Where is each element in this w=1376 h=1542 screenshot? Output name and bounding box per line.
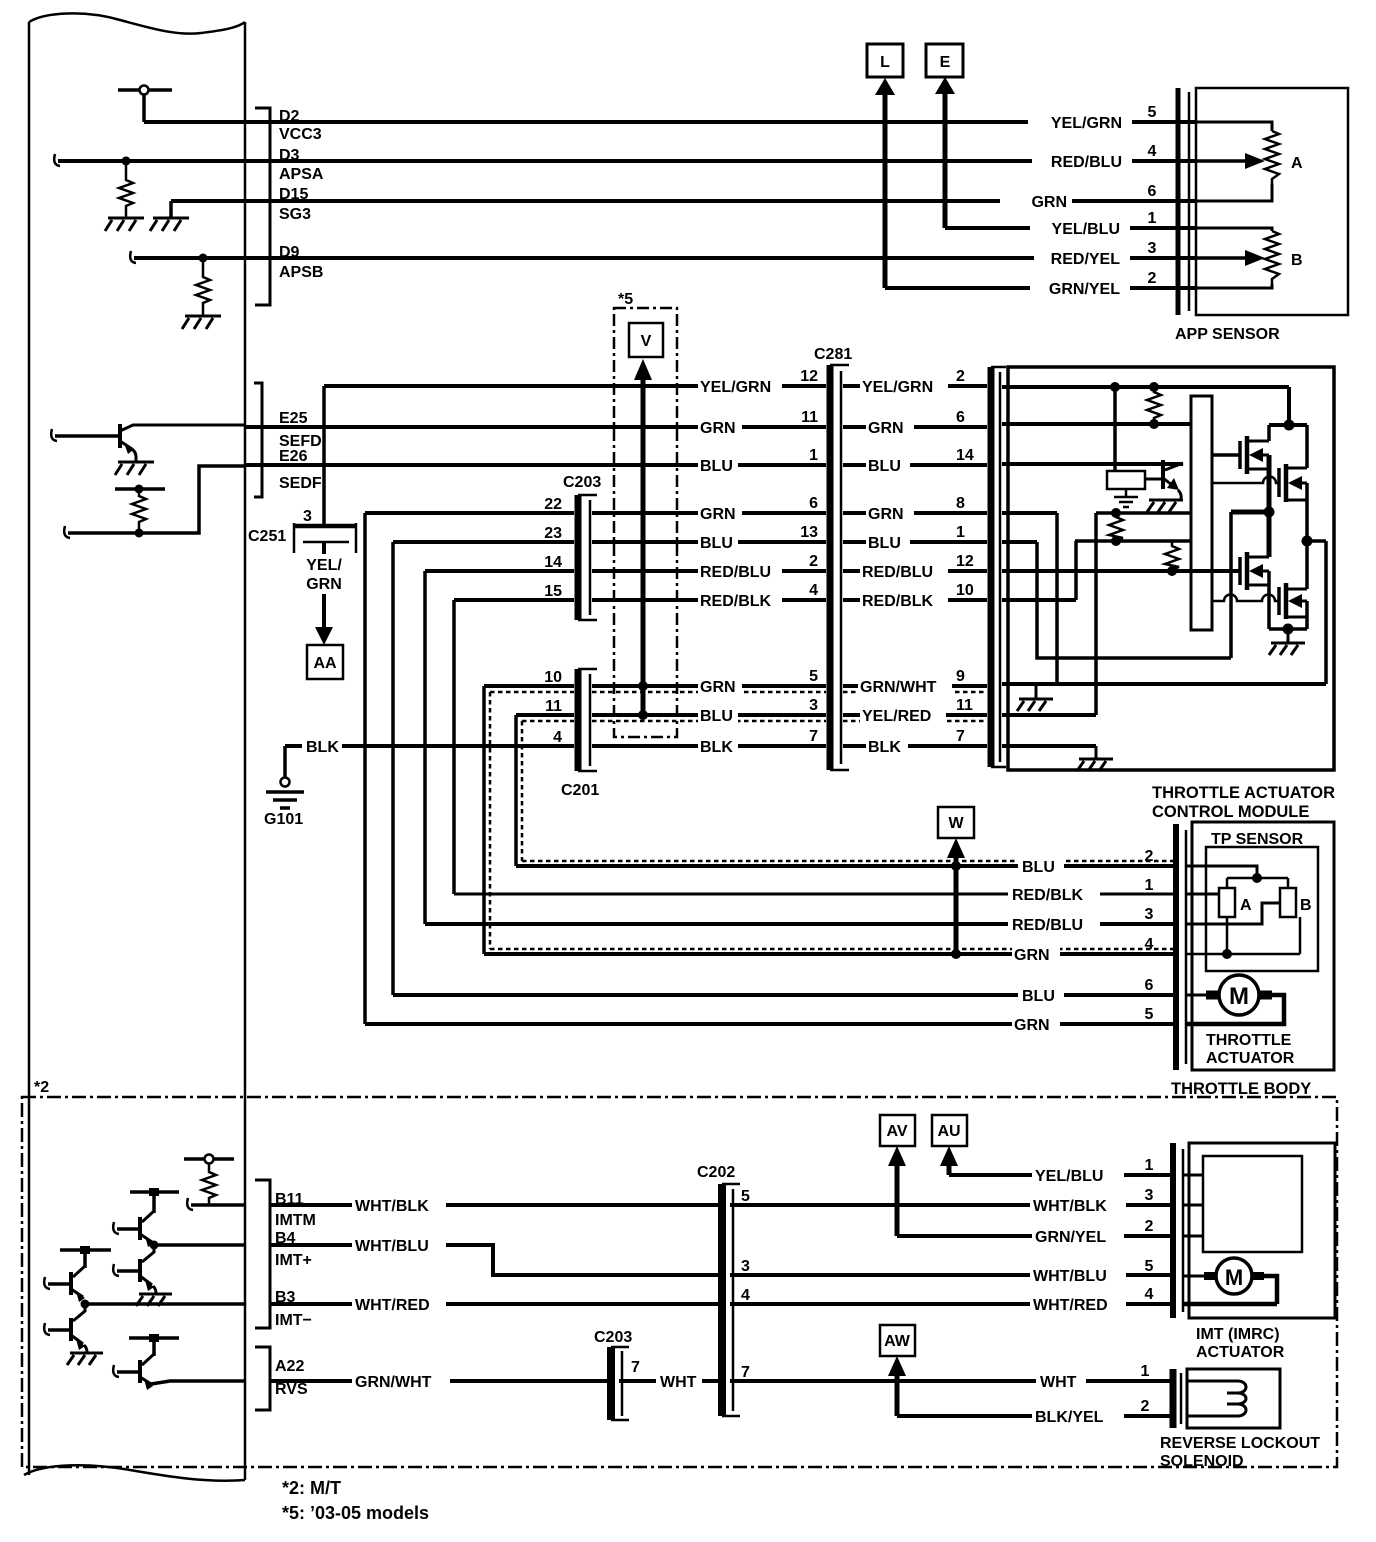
wires C281 to throttle module connector: YEL/GRN pin2 xyxy=(843,384,987,388)
svg-text:2: 2 xyxy=(1145,1218,1154,1235)
potentiometer A wiper arrow xyxy=(1196,159,1248,163)
svg-text:RED/BLU: RED/BLU xyxy=(862,564,933,581)
TP sensor inner box xyxy=(1206,847,1318,971)
resistor bar feed xyxy=(115,487,165,491)
svg-text:2: 2 xyxy=(809,553,818,570)
wire M2 drain up xyxy=(1305,425,1309,468)
svg-text:8: 8 xyxy=(956,495,965,512)
node D9 xyxy=(199,254,208,263)
wire E25/SEFD row (GRN) to C281 pin11 xyxy=(244,425,826,429)
svg-text:14: 14 xyxy=(544,554,562,571)
svg-text:9: 9 xyxy=(956,668,965,685)
svg-text:E: E xyxy=(940,54,951,71)
svg-text:WHT/BLU: WHT/BLU xyxy=(1033,1268,1107,1285)
throttle motor circle xyxy=(1219,975,1259,1015)
connector C203 bar xyxy=(575,495,582,620)
wire GRN/WHT pin9 xyxy=(843,684,987,688)
wire RED/BLU vertical C203-14 down to TP RED/BLU xyxy=(423,571,427,924)
svg-text:AV: AV xyxy=(886,1123,907,1140)
wire gate feed segment xyxy=(1096,511,1191,515)
svg-text:WHT/BLU: WHT/BLU xyxy=(355,1238,429,1255)
svg-text:APSA: APSA xyxy=(279,166,324,183)
wire D15 drop to ground xyxy=(169,201,173,217)
connector bar at IMT actuator xyxy=(1170,1143,1176,1318)
labels: ECM top pins xyxy=(279,54,1303,298)
wire pin6 row xyxy=(1002,422,1191,426)
connector AW box xyxy=(880,1325,915,1356)
throttle motor left tab xyxy=(1206,991,1219,1000)
svg-text:B3: B3 xyxy=(275,1289,296,1306)
transistor Q7 xyxy=(138,1217,142,1240)
svg-text:BLU: BLU xyxy=(868,458,901,475)
label WHT mid xyxy=(656,1373,702,1391)
wire labels right xyxy=(1032,1167,1124,1185)
resistor on D9 to ground xyxy=(196,262,210,315)
transistor Q9 xyxy=(69,1272,73,1295)
transistor Q7 T-bar xyxy=(130,1190,179,1194)
node circle on VCC3 feed xyxy=(140,86,149,95)
wire RED/BLU row to TP pin3 xyxy=(425,922,1176,926)
wire M3 drain from node xyxy=(1267,512,1272,557)
svg-text:AU: AU xyxy=(937,1123,960,1140)
wire BLK row G101 to C281 pin7 xyxy=(285,744,826,748)
IMT feed stubs xyxy=(1183,1175,1203,1236)
connector L box xyxy=(867,44,903,77)
svg-text:4: 4 xyxy=(741,1287,750,1304)
ground on pin7 row xyxy=(1095,746,1098,758)
svg-text:3: 3 xyxy=(1148,240,1157,257)
wire BLU pin14 xyxy=(843,463,987,467)
svg-text:YEL/BLU: YEL/BLU xyxy=(1052,221,1120,238)
connector W arrowhead xyxy=(947,838,965,858)
solenoid coil xyxy=(1187,1381,1246,1416)
svg-text:2: 2 xyxy=(1145,848,1154,865)
connector W arrow line xyxy=(954,852,959,954)
wire pin7 row xyxy=(1002,744,1096,748)
potentiometer B wiper arrow xyxy=(1196,256,1248,260)
MOSFET Q5 xyxy=(1238,557,1242,585)
wire GRN pin8 xyxy=(843,511,987,515)
connector E box xyxy=(926,44,963,77)
svg-text:D9: D9 xyxy=(279,244,300,261)
wire pin9 row xyxy=(1002,682,1326,686)
wire YEL/RED pin11 xyxy=(843,713,987,717)
svg-text:1: 1 xyxy=(956,524,965,541)
connector C251 xyxy=(295,524,356,529)
svg-text:YEL/RED: YEL/RED xyxy=(862,708,931,725)
hook Q7 base xyxy=(113,1222,119,1234)
connector AA box xyxy=(307,645,343,679)
wire D2/VCC3 row to APP pin5 xyxy=(144,120,1196,124)
svg-text:BLU: BLU xyxy=(1022,988,1055,1005)
connector E arrow line xyxy=(943,94,948,228)
wire GRN pin6 xyxy=(843,425,987,429)
node V line x GRN/WHT row xyxy=(638,681,648,691)
svg-text:RED/BLU: RED/BLU xyxy=(1051,154,1122,171)
wire C251 to AA arrow xyxy=(322,542,326,632)
svg-text:VCC3: VCC3 xyxy=(279,126,322,143)
svg-text:RVS: RVS xyxy=(275,1381,308,1398)
wire top node rail xyxy=(1269,423,1307,427)
svg-text:2: 2 xyxy=(956,368,965,385)
svg-text:WHT/RED: WHT/RED xyxy=(1033,1297,1108,1314)
wire BLU row to TP pin2 xyxy=(516,864,1176,868)
svg-text:BLK: BLK xyxy=(700,739,733,756)
hook B11 xyxy=(187,1198,193,1210)
svg-text:1: 1 xyxy=(1148,210,1157,227)
ground under D3 resistor xyxy=(105,218,144,231)
transistor Q2 in module xyxy=(1161,460,1165,489)
connector AV arrow line xyxy=(895,1160,900,1236)
ground under Q8 xyxy=(136,1294,172,1306)
svg-text:4: 4 xyxy=(553,729,562,746)
svg-text:BLU: BLU xyxy=(700,708,733,725)
node B3 xyxy=(81,1300,90,1309)
resistor R2 xyxy=(1109,513,1123,541)
wire bottom node xyxy=(1269,627,1307,631)
svg-text:1: 1 xyxy=(1145,1157,1154,1174)
wire M1 source down / motor node xyxy=(1267,455,1272,512)
throttle actuator control module box xyxy=(1008,367,1334,770)
wire motor node horizontal xyxy=(1231,510,1269,515)
svg-text:C203: C203 xyxy=(563,474,601,491)
svg-text:1: 1 xyxy=(809,447,818,464)
svg-text:BLU: BLU xyxy=(700,535,733,552)
labels: mid section xyxy=(248,291,974,828)
svg-text:BLK: BLK xyxy=(306,739,339,756)
wire GRN/YEL row to IMT pin2 xyxy=(897,1234,1170,1238)
svg-text:C201: C201 xyxy=(561,782,599,799)
svg-text:GRN: GRN xyxy=(700,679,736,696)
wire M2 source down to node xyxy=(1305,483,1309,541)
svg-text:SG3: SG3 xyxy=(279,206,311,223)
ECM module outline (left, torn edges) xyxy=(29,13,245,33)
IMT solenoid block xyxy=(1203,1156,1302,1252)
IMT actuator box xyxy=(1189,1143,1335,1318)
svg-text:SEDF: SEDF xyxy=(279,475,322,492)
svg-text:WHT: WHT xyxy=(660,1374,697,1391)
svg-text:THROTTLE BODY: THROTTLE BODY xyxy=(1171,1080,1311,1098)
transistor Q1 in ECM (SEFD driver) base hook xyxy=(51,429,57,441)
svg-text:5: 5 xyxy=(809,668,818,685)
svg-text:SOLENOID: SOLENOID xyxy=(1160,1453,1244,1470)
wire D3/APSA row to APP pin4 xyxy=(58,159,1196,163)
node V line at YEL/RED row xyxy=(638,710,648,720)
wire BLU vertical C203-23 down to TP BLU xyxy=(391,542,395,995)
wire GRN row C203 pin22 to C281 pin6 xyxy=(365,511,826,515)
dashed *5 vertical to TP pin4 xyxy=(490,692,1173,949)
svg-text:RED/BLU: RED/BLU xyxy=(1012,917,1083,934)
ECM pin bracket A22 xyxy=(255,1347,270,1410)
svg-text:W: W xyxy=(948,815,964,832)
connector L arrow line xyxy=(883,94,888,288)
svg-text:*5: *5 xyxy=(618,291,633,308)
ground under Q2 xyxy=(1147,500,1183,512)
transistor Q11 T-bar xyxy=(129,1336,179,1340)
connector AW arrow line xyxy=(895,1370,900,1416)
svg-text:6: 6 xyxy=(956,409,965,426)
connector AU arrowhead xyxy=(940,1146,958,1166)
MOSFET Q4 xyxy=(1277,468,1281,497)
svg-text:14: 14 xyxy=(956,447,974,464)
svg-text:7: 7 xyxy=(741,1364,750,1381)
dashed *5 vertical to TP pin2 xyxy=(522,721,1173,861)
svg-text:WHT/BLK: WHT/BLK xyxy=(1033,1198,1107,1215)
svg-text:IMTM: IMTM xyxy=(275,1212,316,1229)
MOSFET Q6 xyxy=(1277,587,1281,615)
wire YEL/BLU row to IMT pin1 xyxy=(949,1173,1170,1177)
connector C201 bar xyxy=(575,669,582,771)
wire pin14 row xyxy=(1002,462,1183,466)
node R3 bottom xyxy=(1167,566,1177,576)
TP divider top rail xyxy=(1227,878,1288,888)
connector W box xyxy=(938,807,974,838)
ECM pin bracket D2/APSB xyxy=(255,108,270,305)
wire A22 row inside ECM xyxy=(151,1381,244,1384)
svg-text:7: 7 xyxy=(809,728,818,745)
resistor R1 pin2-pin6 xyxy=(1147,387,1161,424)
wire D9/APSB row to APP pin3 xyxy=(134,256,1196,260)
wire mid horizontal to IC xyxy=(1075,539,1191,543)
throttle body box xyxy=(1192,822,1334,1070)
svg-text:B: B xyxy=(1300,897,1312,914)
transistor Q11 xyxy=(138,1360,142,1383)
svg-text:5: 5 xyxy=(741,1188,750,1205)
svg-text:BLU: BLU xyxy=(1022,859,1055,876)
hook Q8 base xyxy=(113,1264,119,1276)
TP sensor interior: pin2 feed xyxy=(1186,866,1257,878)
transistor Q1 base wire xyxy=(55,434,120,438)
svg-text:10: 10 xyxy=(956,582,974,599)
svg-text:D15: D15 xyxy=(279,186,308,203)
svg-text:GRN/YEL: GRN/YEL xyxy=(1049,281,1120,298)
svg-text:11: 11 xyxy=(545,698,562,715)
wire GRN/YEL row (L arrow to APP pin2) xyxy=(885,286,1196,290)
svg-text:GRN: GRN xyxy=(1031,194,1067,211)
wire BLU row C201 pin11 to C281 pin3 xyxy=(516,713,826,717)
TP bottom rail pin4 xyxy=(1186,917,1300,954)
dash-dot box *2 M/T region xyxy=(22,1097,1337,1467)
svg-text:REVERSE LOCKOUT: REVERSE LOCKOUT xyxy=(1160,1435,1320,1452)
svg-text:YEL/GRN: YEL/GRN xyxy=(862,379,933,396)
label BLK at G101 xyxy=(302,737,342,756)
svg-text:3: 3 xyxy=(741,1258,750,1275)
svg-text:A: A xyxy=(1291,155,1303,172)
svg-text:2: 2 xyxy=(1141,1398,1150,1415)
svg-text:WHT/RED: WHT/RED xyxy=(355,1297,430,1314)
svg-text:6: 6 xyxy=(1145,977,1154,994)
svg-text:3: 3 xyxy=(303,508,312,525)
svg-text:A: A xyxy=(1240,897,1252,914)
wire pin1 drop xyxy=(1037,542,1231,658)
svg-text:B: B xyxy=(1291,252,1303,269)
wire RED/BLU pin12 xyxy=(843,569,987,573)
potentiometer B xyxy=(1265,231,1279,284)
connector V arrowhead xyxy=(634,359,652,380)
wire RED/BLK row C203 pin15 to C281 pin4 xyxy=(454,598,826,602)
ground tap on pin9 row xyxy=(1035,684,1038,698)
svg-text:BLK: BLK xyxy=(868,739,901,756)
svg-text:IMT (IMRC): IMT (IMRC) xyxy=(1196,1326,1280,1343)
svg-text:YEL/: YEL/ xyxy=(306,557,342,574)
G101 terminal circle xyxy=(281,778,290,787)
svg-text:GRN/YEL: GRN/YEL xyxy=(1035,1229,1106,1246)
wire E26/SEDF row (BLU) to C281 pin1 xyxy=(244,463,826,467)
hook E26 branch xyxy=(64,526,70,538)
transistor Q9 T-bar xyxy=(60,1248,111,1252)
wire YEL/GRN row to C281 pin12 xyxy=(324,384,826,388)
wire B11 row inside ECM xyxy=(191,1203,244,1207)
svg-text:M: M xyxy=(1225,1265,1243,1290)
wire pin2 rail drop to node xyxy=(1287,387,1291,425)
TP element A xyxy=(1219,888,1235,917)
svg-text:4: 4 xyxy=(1145,936,1154,953)
throttle motor return loop to pin5 xyxy=(1186,995,1284,1024)
svg-text:E26: E26 xyxy=(279,448,308,465)
throttle motor right tab xyxy=(1259,991,1272,1000)
svg-text:GRN: GRN xyxy=(868,506,904,523)
svg-text:YEL/GRN: YEL/GRN xyxy=(1051,115,1122,132)
ECM pin bracket B11/B3 xyxy=(255,1180,270,1328)
wire BLK/YEL row to solenoid pin2 xyxy=(897,1414,1170,1418)
svg-text:M: M xyxy=(1229,983,1249,1010)
svg-text:E25: E25 xyxy=(279,410,308,427)
wire C251 drop xyxy=(322,386,326,526)
wire pin11 row xyxy=(1002,713,1096,717)
svg-text:C203: C203 xyxy=(594,1329,632,1346)
connector C203 bar (bottom) xyxy=(607,1347,615,1420)
wire GRN row to TP pin5 xyxy=(365,1022,1176,1026)
wire pin8 drop to pin9 row xyxy=(1055,513,1059,684)
svg-text:D3: D3 xyxy=(279,147,300,164)
wire BLK pin7 xyxy=(843,744,987,748)
node W line at GRN row xyxy=(951,949,961,959)
svg-text:*5: ’03-05 models: *5: ’03-05 models xyxy=(282,1503,429,1523)
svg-text:THROTTLE ACTUATOR: THROTTLE ACTUATOR xyxy=(1152,784,1335,802)
svg-text:*2: *2 xyxy=(34,1079,49,1096)
IMT motor loop to pin4 xyxy=(1183,1276,1277,1304)
potentiometer A feed wires xyxy=(1196,122,1272,201)
svg-text:AW: AW xyxy=(884,1333,911,1350)
svg-text:WHT: WHT xyxy=(1040,1374,1077,1391)
labels: throttle body xyxy=(948,815,1311,1034)
svg-text:GRN: GRN xyxy=(700,506,736,523)
wire M4 source down xyxy=(1305,601,1309,629)
wire labels left xyxy=(352,1197,446,1215)
svg-text:1: 1 xyxy=(1145,877,1154,894)
svg-text:IMT+: IMT+ xyxy=(275,1252,312,1269)
connector V box xyxy=(629,323,663,357)
wire GRN vertical C203-22 down to TP GRN xyxy=(363,513,367,1024)
wire labels TP rows xyxy=(1018,858,1064,876)
svg-text:RED/BLK: RED/BLK xyxy=(700,593,772,610)
svg-text:6: 6 xyxy=(809,495,818,512)
svg-text:7: 7 xyxy=(956,728,965,745)
connector AV box xyxy=(880,1115,915,1146)
wire M1 gate xyxy=(1212,453,1240,457)
node W line x BLU row xyxy=(951,861,961,871)
wire BLU pin1 xyxy=(843,540,987,544)
C281-module wire color labels xyxy=(860,377,948,396)
connector C202 bar xyxy=(718,1184,726,1416)
MOSFET Q3 xyxy=(1238,441,1242,469)
connector AU box xyxy=(932,1115,967,1146)
resistor E26 xyxy=(132,489,146,530)
wire pin2 rail xyxy=(1002,385,1289,389)
wire pin8 row xyxy=(1002,511,1057,515)
wire B4 row inside ECM xyxy=(154,1243,244,1247)
wire GRN vertical C201-10 down to TP pin4 xyxy=(482,686,486,954)
wire B4/IMT+ row WHT/BLU (stepped) to IMT pin5 xyxy=(270,1245,1170,1275)
svg-text:3: 3 xyxy=(1145,906,1154,923)
connector AW arrowhead xyxy=(888,1356,906,1376)
svg-text:2: 2 xyxy=(1148,270,1157,287)
wire RED/BLK pin10 xyxy=(843,598,987,602)
svg-text:CONTROL MODULE: CONTROL MODULE xyxy=(1152,803,1309,821)
IMT motor feed xyxy=(1183,1275,1210,1278)
wire VCC3 feed bar xyxy=(118,88,172,92)
dashed *5 wire along YEL/RED row xyxy=(522,720,985,723)
svg-text:YEL/GRN: YEL/GRN xyxy=(700,379,771,396)
ground under Q1 emitter xyxy=(115,462,154,475)
svg-text:A22: A22 xyxy=(275,1358,304,1375)
svg-text:C202: C202 xyxy=(697,1164,735,1181)
TP pin3 wiper into B xyxy=(1186,903,1280,924)
node D3 xyxy=(122,157,131,166)
svg-text:RED/YEL: RED/YEL xyxy=(1051,251,1121,268)
svg-text:11: 11 xyxy=(956,697,973,714)
wire pin11 riser xyxy=(1094,513,1098,715)
connector AU arrow line xyxy=(947,1160,952,1175)
wire B11/IMTM row WHT/BLK to IMT pin3 xyxy=(270,1203,1170,1207)
svg-text:G101: G101 xyxy=(264,811,303,828)
IMT motor right tab xyxy=(1252,1272,1264,1280)
svg-text:WHT/BLK: WHT/BLK xyxy=(355,1198,429,1215)
hook Q11 base xyxy=(113,1365,119,1377)
svg-text:13: 13 xyxy=(800,524,818,541)
svg-text:11: 11 xyxy=(801,409,818,426)
node rail dots xyxy=(1110,382,1120,392)
wire YEL/BLU row (E arrow to APP pin1) xyxy=(945,226,1196,230)
wire relay feed drop xyxy=(1113,387,1117,471)
svg-text:L: L xyxy=(880,54,890,71)
svg-text:B11: B11 xyxy=(275,1191,304,1208)
relay box U3 xyxy=(1107,471,1145,489)
svg-text:BLU: BLU xyxy=(700,458,733,475)
svg-text:1: 1 xyxy=(1141,1363,1150,1380)
wire BLU row C203 pin23 to C281 pin13 xyxy=(393,540,826,544)
throttle motor M1 feed xyxy=(1186,994,1212,997)
wire B3 row inside ECM xyxy=(85,1302,244,1306)
svg-text:GRN: GRN xyxy=(306,576,342,593)
ECM pin bracket E25/SEDF xyxy=(254,383,262,497)
connector bar at throttle body xyxy=(1173,824,1179,1070)
svg-text:10: 10 xyxy=(544,669,562,686)
svg-text:C281: C281 xyxy=(814,346,852,363)
wire GRN row C201 pin10 to C281 pin5 xyxy=(484,684,826,688)
connector AV arrowhead xyxy=(888,1146,906,1166)
wire E26 branch into ECM xyxy=(68,466,244,533)
resistor feed circle (B11 pullup) xyxy=(205,1155,214,1164)
TP pin1 wiper into A xyxy=(1186,893,1219,896)
labels: bottom section xyxy=(34,1079,1243,1426)
svg-text:GRN/WHT: GRN/WHT xyxy=(860,679,937,696)
wire RED/BLK row to TP pin1 xyxy=(454,893,1176,896)
hook D3 xyxy=(54,154,60,166)
svg-text:GRN: GRN xyxy=(868,420,904,437)
ground under MOSFET pair xyxy=(1287,629,1290,642)
connector V arrow line xyxy=(641,375,646,715)
